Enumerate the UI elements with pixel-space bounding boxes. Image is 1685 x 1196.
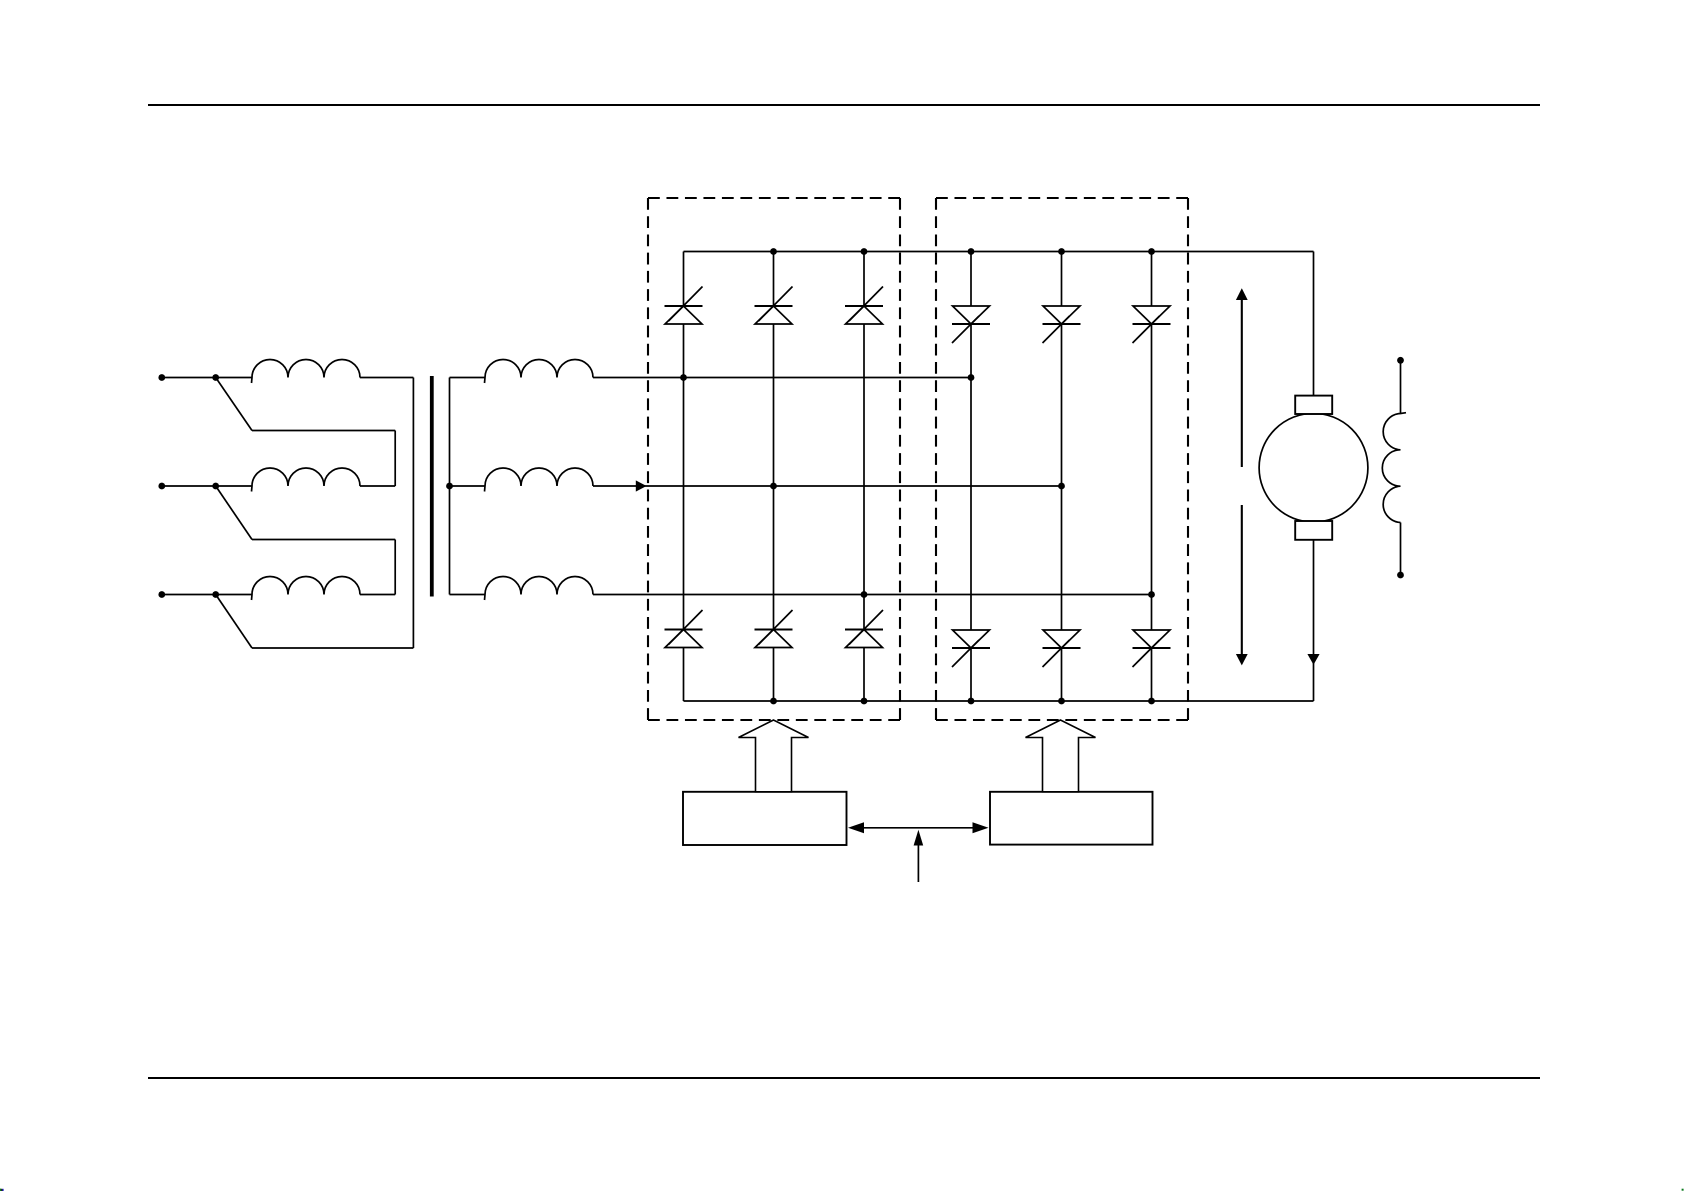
wire phase a to bridges <box>593 377 971 379</box>
control unit 1 <box>683 792 847 845</box>
thyristor T2 <box>755 287 793 325</box>
wire delta link T to P1 end <box>216 378 414 649</box>
wire leg 1-1 <box>683 252 685 702</box>
junction top bus 2 <box>861 248 868 255</box>
wire leg 1-2 <box>773 252 775 702</box>
current direction arrow on phase b <box>636 480 647 491</box>
firing pulses block arrow 1 <box>739 720 809 792</box>
wire phase S input <box>162 485 252 487</box>
thyristor T6p <box>1133 630 1171 667</box>
control unit 2 <box>990 792 1153 845</box>
wire negative dc bus <box>684 700 1314 702</box>
junction top bus 5 <box>1148 248 1155 255</box>
node c2 <box>1148 591 1155 598</box>
wire phase b to bridges <box>593 485 1062 487</box>
junction bottom bus 3 <box>968 698 975 705</box>
wire delta link R to P2 end <box>216 378 396 487</box>
thyristor T2p <box>1043 306 1081 343</box>
converter 1 enclosure (dashed) <box>648 198 900 720</box>
interlock double arrow <box>848 822 989 833</box>
junction bottom bus 5 <box>1148 698 1155 705</box>
node b1 <box>770 483 777 490</box>
thyristor T1 <box>665 287 703 325</box>
secondary winding S1 <box>450 360 594 383</box>
thyristor T1p <box>952 306 990 343</box>
transformer core <box>430 376 434 597</box>
terminal T <box>158 591 165 598</box>
thyristor T4p <box>952 630 990 667</box>
wire positive dc bus <box>684 251 1314 253</box>
node R1 <box>212 374 219 381</box>
wire delta link S to P3 end <box>216 486 396 595</box>
thyristor T5 <box>755 610 793 648</box>
wire secondary star bus <box>449 378 451 595</box>
thyristor T6 <box>845 610 883 648</box>
node a2 <box>968 374 975 381</box>
converter 2 enclosure (dashed) <box>936 198 1188 720</box>
junction top bus 4 <box>1058 248 1065 255</box>
node S1 <box>212 483 219 490</box>
wire P2 right lead <box>360 485 395 487</box>
firing pulses block arrow 2 <box>1026 720 1096 792</box>
junction bottom bus 4 <box>1058 698 1065 705</box>
terminal field - <box>1397 572 1404 579</box>
wire leg 2-1 <box>970 252 972 702</box>
junction top bus 1 <box>770 248 777 255</box>
junction top bus 3 <box>968 248 975 255</box>
motor M armature <box>1259 396 1368 540</box>
node c1 <box>861 591 868 598</box>
field winding F <box>1382 360 1406 575</box>
thyristor T5p <box>1043 630 1081 667</box>
wire P1 to bus <box>360 377 414 379</box>
wire phase T input <box>162 594 252 596</box>
armature voltage double arrow <box>1236 288 1248 665</box>
primary winding P3 <box>252 577 361 601</box>
junction bottom bus 1 <box>770 698 777 705</box>
junction bottom bus 2 <box>861 698 868 705</box>
wire phase c to bridges <box>593 594 1152 596</box>
terminal R <box>158 374 165 381</box>
node T1 <box>212 591 219 598</box>
secondary winding S3 <box>450 577 594 601</box>
terminal S <box>158 483 165 490</box>
wire leg 2-3 <box>1151 252 1153 702</box>
secondary winding S2 <box>450 468 594 492</box>
wire motor positive lead <box>1313 252 1315 397</box>
primary winding P1 <box>252 360 361 383</box>
wire motor negative lead <box>1313 540 1315 701</box>
node b2 <box>1058 483 1065 490</box>
thyristor T4 <box>665 610 703 648</box>
wire phase R input <box>162 377 252 379</box>
node star point <box>446 483 453 490</box>
thyristor T3p <box>1133 306 1171 343</box>
wire P3 right lead <box>360 594 395 596</box>
wire leg 2-2 <box>1061 252 1063 702</box>
thyristor T3 <box>845 287 883 325</box>
armature current arrow <box>1307 654 1319 665</box>
primary winding P2 <box>252 468 361 492</box>
node a1 <box>680 374 687 381</box>
reference input arrow <box>914 830 924 882</box>
terminal field + <box>1397 357 1404 364</box>
wire leg 1-3 <box>863 252 865 702</box>
